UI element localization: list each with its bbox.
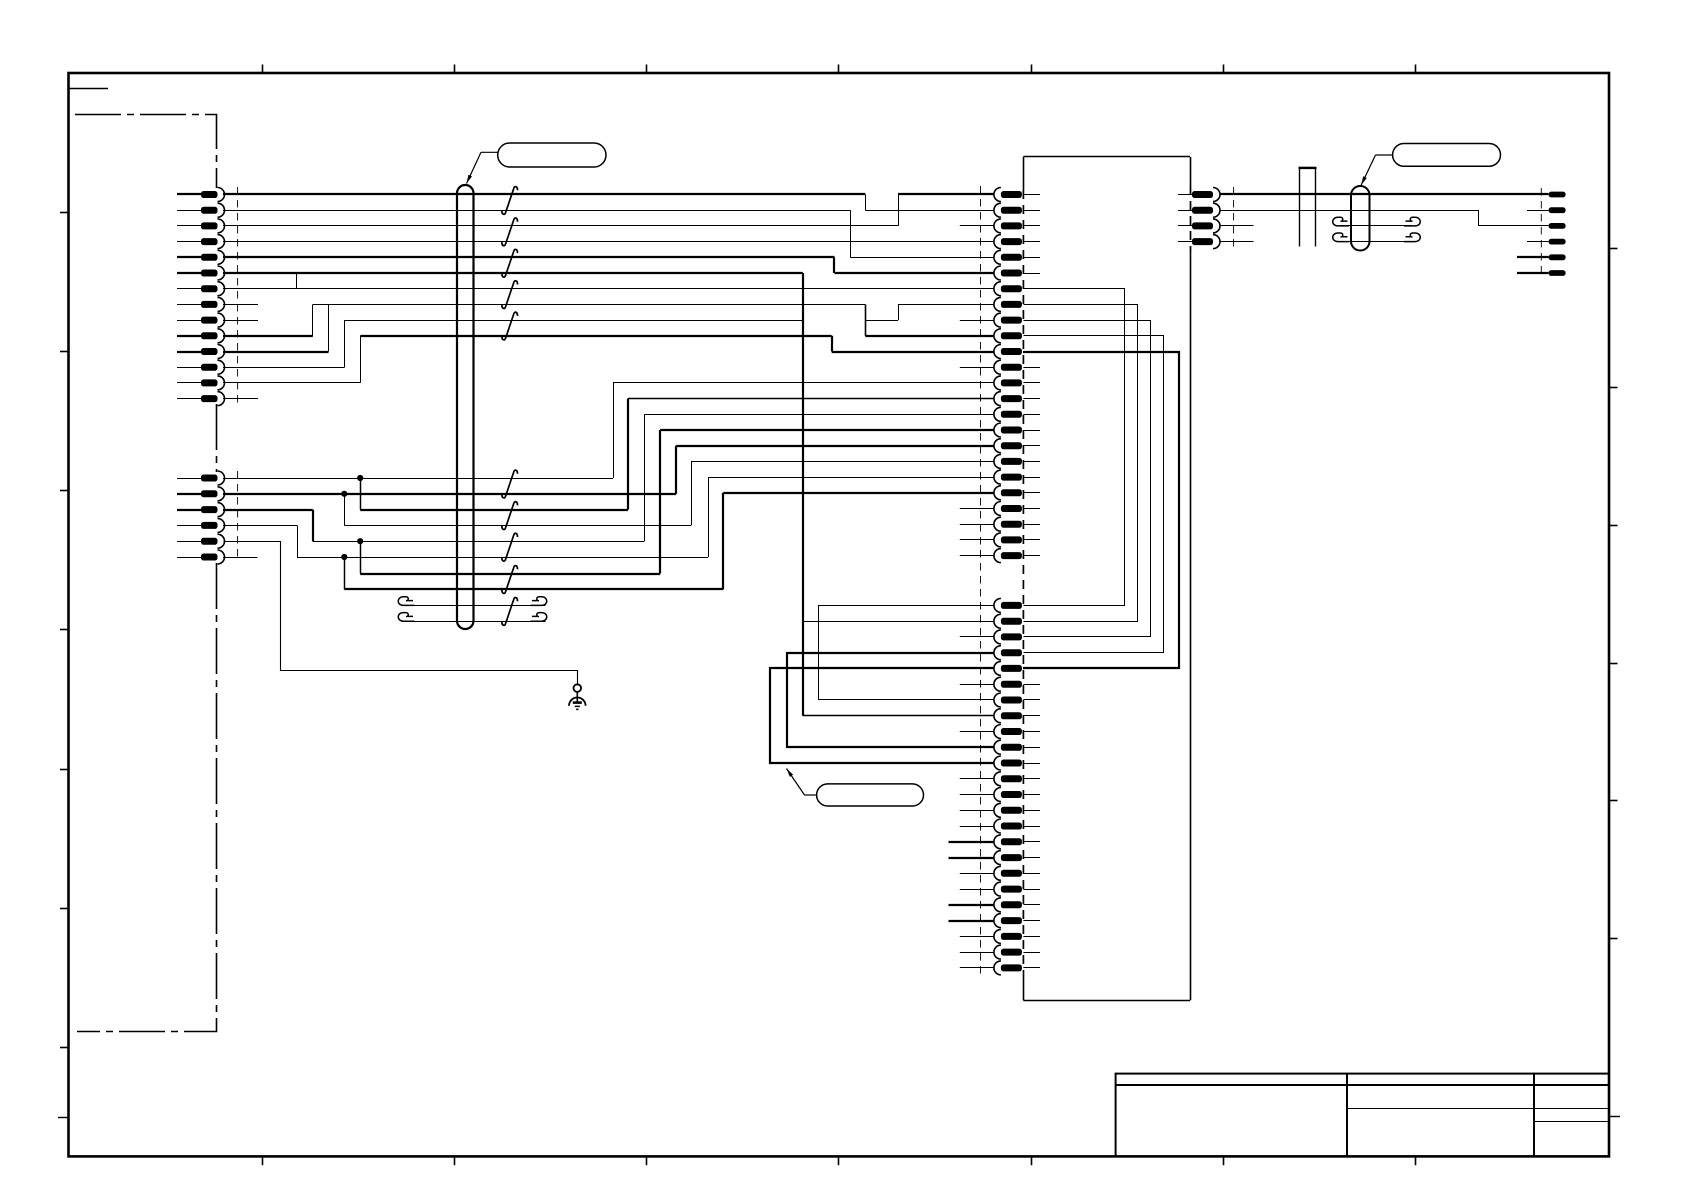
title block alignment tick left xyxy=(58,1117,69,1119)
wire right row r1 with jog xyxy=(1220,211,1549,226)
wire row r18 to block pin19 xyxy=(708,477,994,479)
wire row r7 middle xyxy=(313,304,865,306)
wire J2-3 row left xyxy=(223,509,313,511)
wire jog up at 676 to r16 xyxy=(675,446,677,494)
wire J1-5 row r4 left xyxy=(223,256,835,258)
wire jog up at 708 to r18 xyxy=(708,477,710,557)
wire J1-4 row r3 to block pin4 xyxy=(223,241,994,243)
border bottom tick marks xyxy=(263,1156,1416,1165)
shield drain wire 2 xyxy=(402,621,546,623)
wire row r16 to block pin17 xyxy=(676,445,994,447)
module P1 right side pin sockets xyxy=(1178,188,1220,249)
wire J2-6 stub xyxy=(223,557,257,559)
module P1 outline bottom xyxy=(1023,1000,1190,1002)
wire J3-4 stub xyxy=(1527,241,1549,243)
shield pigtail right 1 xyxy=(531,597,547,606)
module P1 upper pin sockets 1-24 xyxy=(994,188,1022,563)
title block right cell rule 2 xyxy=(1534,1121,1609,1123)
wire notch r1 segment xyxy=(865,210,898,212)
twisted pair marker lower 1 xyxy=(502,470,518,498)
twisted pair marker lower 5 xyxy=(502,597,518,625)
bracket wire pin25-pin31 xyxy=(819,606,994,700)
wire row r4 right to block pin5 xyxy=(850,257,994,259)
wire long vertical at 803 xyxy=(802,273,804,716)
wire J3-6 stub xyxy=(1517,272,1549,274)
harness boundary top segment xyxy=(75,115,217,189)
wire J1-7 row r6 to block pin7 xyxy=(223,288,994,290)
wire row r9 middle xyxy=(360,335,831,337)
title block second top rule xyxy=(1116,1084,1609,1086)
module internal wire pin11 to pin29 xyxy=(1023,352,1179,668)
harness boundary vertical segment 2 xyxy=(216,404,218,472)
module P1 upper pin inside stubs xyxy=(1023,195,1040,556)
module P1 lower pin sockets 25-48 xyxy=(994,598,1022,975)
cable boundary dashed line at connector A xyxy=(237,187,239,404)
callout balloon note 1 xyxy=(498,143,606,167)
shield pigtail right-assembly right 1 xyxy=(1404,217,1420,226)
module P1 outline right dashed xyxy=(1190,186,1192,252)
wire right pin3 stub xyxy=(1220,225,1254,227)
branch row bp3 xyxy=(344,525,691,527)
shield pigtail right-assembly left 1 xyxy=(1333,217,1349,226)
wire J1-13 row r12 xyxy=(223,382,360,384)
shield pigtail right-assembly left 2 xyxy=(1333,233,1349,242)
cable shield symbol S2 xyxy=(1351,186,1370,251)
wire jog up at 691 to r17 xyxy=(691,461,693,525)
wire J1-9 row r8 stub xyxy=(223,320,258,322)
cable boundary dashed line at connector B xyxy=(237,471,239,560)
wire jog vertical at 313 r7-r9 xyxy=(312,304,314,335)
wire J2-2 row xyxy=(223,493,676,495)
wire row bp5 middle xyxy=(297,557,708,559)
shield pigtail right 2 xyxy=(531,613,547,622)
wire jog vertical at 344 r8-r11 xyxy=(344,320,346,367)
ground wire from J2 pin5 xyxy=(224,542,578,686)
wire notch r8 segment xyxy=(865,320,898,322)
module P1 outline right lower xyxy=(1190,252,1192,1000)
wire J2-4 row left xyxy=(223,525,297,527)
branch vertical from dot B xyxy=(344,494,346,526)
title block divider 1 xyxy=(1346,1074,1348,1157)
twisted pair marker upper 5 xyxy=(502,312,518,340)
title block divider 2 xyxy=(1533,1074,1535,1157)
junction dot C xyxy=(357,538,363,544)
branch vertical from dot D xyxy=(344,557,346,589)
wire jog down at 297 bp3-bp5 xyxy=(297,525,299,557)
wire crossover vertical at 898 xyxy=(898,195,900,226)
module P1 outline left solid bottom xyxy=(1023,970,1025,1000)
wire jog vertical at 850 r1-r4 xyxy=(850,210,852,257)
wire row r17 to block pin18 xyxy=(691,461,994,463)
wire jog vertical at 296 r5-r6 xyxy=(296,273,298,289)
title block right cell rule 1 xyxy=(1534,1108,1609,1110)
wire J1-12 row r11 xyxy=(223,367,345,369)
branch vertical from dot A xyxy=(360,478,362,510)
shield drain wire right 1 xyxy=(1340,225,1412,227)
wire row r10 right to block pin11 xyxy=(832,351,994,353)
title block alignment tick right xyxy=(1609,1116,1620,1118)
wire jog up at 644 to r14 xyxy=(644,414,646,541)
wire J1-1 row r0 left xyxy=(223,193,865,195)
wire row r8 middle xyxy=(345,320,803,322)
wire row r5 right to block pin6 xyxy=(835,272,994,274)
wire J3-5 stub xyxy=(1517,256,1549,258)
twisted pair marker upper 1 xyxy=(502,187,518,215)
harness boundary bottom segment xyxy=(77,563,217,1032)
branch vertical from dot C xyxy=(360,541,362,573)
wire row r7 right to block pin8 xyxy=(898,304,994,306)
branch row bp2 thick xyxy=(360,509,628,511)
bracket wire pin28-pin34 xyxy=(787,653,994,747)
junction dot D xyxy=(341,554,347,560)
wire jog vertical at 328 r7-r10 xyxy=(328,304,330,351)
wire row r1 right to block pin2 xyxy=(898,210,994,212)
cable shield symbol S1 xyxy=(457,185,474,629)
module P1 lower pin inside stubs xyxy=(1023,685,1040,968)
wire jog up at 660 to r15 xyxy=(659,430,661,574)
module P1 outline right upper xyxy=(1190,157,1192,186)
module P1 lower thick pin stubs xyxy=(949,842,994,921)
module internal wire pin9 to pin27 xyxy=(1024,321,1151,637)
wire J1-6 row r5 xyxy=(223,272,803,274)
shield drain wire 1 xyxy=(402,605,546,607)
twisted pair marker upper 2 xyxy=(502,218,518,246)
twisted pair marker lower 3 xyxy=(502,533,518,561)
wire jog up at 613 to r12 xyxy=(613,383,615,478)
junction dot B xyxy=(341,491,347,497)
callout 1 leader line xyxy=(481,151,498,153)
wire jog vertical at 831 r9-r10 xyxy=(831,336,833,352)
cable boundary dashed line right of block xyxy=(1233,187,1235,248)
wire J1-2 row r1 left xyxy=(223,210,850,212)
shield drain wire right 2 xyxy=(1340,241,1412,243)
connector J1 pins 1-14 xyxy=(177,188,225,406)
twisted pair marker upper 4 xyxy=(502,281,518,309)
wire jog vertical at 834 r4-r5 xyxy=(833,257,835,273)
title block middle cell rule xyxy=(1347,1108,1534,1110)
wire jog down at 312 bp2-bp4 xyxy=(312,510,314,542)
wire right row r0 thick xyxy=(1220,193,1549,195)
chassis ground symbol xyxy=(574,684,582,692)
border right tick marks xyxy=(1609,249,1618,939)
callout 3 leader line xyxy=(805,794,817,796)
branch row br1 thick xyxy=(360,573,660,575)
module P1 upper unconnected pin stubs xyxy=(960,226,994,556)
wire jog up at 723 to r19 xyxy=(722,493,724,590)
junction dot A xyxy=(357,475,363,481)
branch row br2 thick xyxy=(344,588,723,590)
wire row r12 to block pin13 xyxy=(613,382,994,384)
wire row to block pin32 xyxy=(803,715,994,717)
cable boundary dashed line left of block xyxy=(980,186,982,975)
shield pigtail left 1 xyxy=(398,597,414,606)
wire row r9 right to block pin10 xyxy=(865,335,994,337)
wire row r0 right to block pin1 xyxy=(898,193,994,195)
border left tick marks xyxy=(60,213,69,1048)
wire crossover vertical at 898 r7-r8 xyxy=(898,304,900,320)
border top tick marks xyxy=(263,65,1416,74)
cable boundary dashed line at right connector xyxy=(1540,188,1542,276)
wire J1-3 row r2 xyxy=(223,225,898,227)
module P1 outline top xyxy=(1023,156,1190,158)
wire jog vertical at 360 r9-r12 xyxy=(360,336,362,383)
module P1 outline left solid top xyxy=(1023,157,1025,190)
wire J1-8 row r7 stub xyxy=(223,304,258,306)
connector J3 pins 1-6 xyxy=(1549,192,1566,276)
shield pigtail left 2 xyxy=(398,613,414,622)
connector J2 pins 1-6 xyxy=(177,471,225,564)
module internal wire pin8 to pin26 xyxy=(1024,305,1138,622)
twisted pair marker lower 2 xyxy=(502,502,518,530)
callout 2 leader line xyxy=(1376,154,1393,156)
module internal wire pin7 to pin25 xyxy=(1024,289,1125,606)
wire right pin4 stub xyxy=(1220,241,1254,243)
wire J1-14 row r13 stub xyxy=(223,398,258,400)
wire jog vertical at 865 r7-r9 xyxy=(865,304,867,335)
wire jog up at 628 to r13 xyxy=(627,399,629,510)
module P1 lower thin pin stubs xyxy=(960,637,994,968)
module internal wire pin10 to pin28 xyxy=(1024,336,1164,653)
module P1 outline left dashed xyxy=(1022,190,1024,970)
wire row r19 to block pin20 xyxy=(723,492,994,494)
wire row r13 to block pin14 xyxy=(628,398,994,400)
wire J1-11 row r10 left xyxy=(223,351,329,353)
wire row r15 to block pin16 xyxy=(660,429,994,431)
callout balloon note 3 xyxy=(817,784,924,806)
wire notch vertical at 865 xyxy=(865,195,867,211)
callout balloon note 2 xyxy=(1393,144,1501,167)
title block outline xyxy=(1116,1074,1609,1157)
wire J1-10 row r9 left xyxy=(223,335,313,337)
twisted pair marker upper 3 xyxy=(502,249,518,277)
wire J3-2 stub xyxy=(1527,210,1549,212)
wire J2-1 row xyxy=(223,478,613,480)
wire row r14 to block pin15 xyxy=(644,414,994,416)
wire row bp4 middle xyxy=(313,541,645,543)
bracket wire pin29-pin35 xyxy=(770,668,994,763)
shield pigtail right-assembly right 2 xyxy=(1404,233,1420,242)
wire tap to block pin26 xyxy=(803,621,994,623)
twisted pair marker lower 4 xyxy=(502,566,518,594)
ferrite bead FB1 xyxy=(1300,168,1316,247)
fold mark top-left xyxy=(69,88,109,90)
